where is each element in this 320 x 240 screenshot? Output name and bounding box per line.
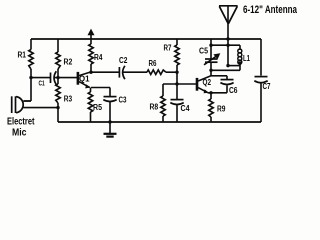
svg-text:C6: C6 (229, 86, 238, 95)
svg-text:R2: R2 (64, 58, 73, 67)
svg-text:R6: R6 (149, 59, 157, 68)
svg-text:R4: R4 (94, 53, 103, 62)
svg-text:R3: R3 (64, 95, 73, 104)
svg-text:Q1: Q1 (79, 75, 90, 84)
svg-text:R9: R9 (217, 105, 226, 114)
svg-text:C4: C4 (181, 104, 190, 113)
svg-text:L1: L1 (243, 54, 250, 63)
svg-text:C2: C2 (119, 56, 128, 65)
svg-text:C5: C5 (199, 47, 208, 56)
svg-text:R1: R1 (18, 50, 27, 59)
svg-text:C1: C1 (39, 80, 45, 87)
svg-text:C3: C3 (119, 96, 127, 105)
svg-text:C7: C7 (263, 82, 271, 91)
svg-text:R7: R7 (164, 43, 172, 52)
svg-text:6-12" Antenna: 6-12" Antenna (243, 4, 298, 16)
svg-text:Electret: Electret (7, 116, 35, 127)
svg-text:R5: R5 (93, 103, 102, 112)
svg-text:Mic: Mic (12, 127, 27, 138)
svg-text:R8: R8 (150, 103, 159, 112)
svg-text:Q2: Q2 (203, 78, 212, 87)
